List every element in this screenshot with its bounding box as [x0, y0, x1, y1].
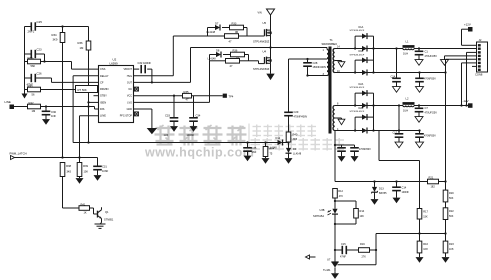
svg-text:R34: R34 [52, 33, 58, 37]
capacitor C17 [393, 131, 404, 148]
svg-text:LL4148: LL4148 [208, 57, 217, 60]
svg-text:470UF/25V: 470UF/25V [425, 111, 438, 114]
svg-text:1K8: 1K8 [423, 248, 428, 251]
wire opto parallel loop [334, 201, 356, 225]
svg-text:R14: R14 [360, 209, 365, 213]
resistor R43 [25, 84, 76, 97]
regulator U7 TL431 [323, 258, 339, 272]
svg-text:GND: GND [127, 108, 133, 111]
wire LVG to gate network 2 [134, 61, 210, 103]
resistor R22 [443, 208, 454, 220]
diode D2A dual rectifier [350, 83, 375, 131]
svg-text:R16: R16 [423, 242, 428, 246]
resistor R19 [359, 242, 377, 258]
svg-text:1NF: 1NF [51, 114, 56, 118]
svg-text:STPS20L45CF: STPS20L45CF [350, 30, 365, 32]
svg-text:PFC-STOP: PFC-STOP [120, 115, 133, 118]
svg-text:R21: R21 [429, 175, 434, 179]
svg-text:D10: D10 [276, 136, 281, 140]
wire +12V pad to pin1 [462, 29, 478, 45]
resistor R35 [183, 90, 192, 101]
capacitor C29 [284, 110, 307, 132]
wire pin5 to divider column [444, 59, 477, 73]
svg-text:C17: C17 [393, 132, 398, 135]
capacitor C31 [93, 165, 108, 181]
wire HVG to gate network 1 [134, 36, 174, 76]
wire R34 down vertical [62, 43, 64, 158]
capacitor C26 [25, 72, 99, 87]
svg-text:10NF: 10NF [102, 169, 109, 173]
resistor R41 [79, 202, 90, 214]
svg-text:470NF/400V: 470NF/400V [294, 116, 308, 119]
capacitor C25 [28, 20, 43, 33]
svg-text:www.hqchip.com: www.hqchip.com [144, 146, 254, 160]
wire LINE pin to R39 [80, 116, 99, 163]
svg-text:56K: 56K [449, 215, 454, 218]
node LINE input pad [5, 100, 15, 109]
svg-text:LINE: LINE [100, 114, 106, 118]
node +12V pad [464, 23, 473, 32]
svg-text:Q1: Q1 [105, 210, 109, 214]
svg-text:J2: J2 [479, 38, 482, 42]
svg-text:U4: U4 [263, 50, 267, 54]
svg-text:10K: 10K [360, 215, 365, 218]
wire LINE row [14, 105, 99, 109]
resistor R39 [76, 163, 89, 184]
resistor R21 [428, 175, 439, 188]
capacitor C7 [415, 104, 438, 122]
node VIN flag [258, 9, 275, 15]
svg-text:D13: D13 [379, 187, 384, 191]
svg-text:R17: R17 [423, 210, 428, 214]
svg-text:LINE: LINE [5, 100, 11, 104]
svg-text:C25: C25 [37, 20, 43, 24]
diode D1A dual rectifier [350, 26, 375, 73]
capacitor C30 [42, 107, 57, 125]
svg-text:1NF: 1NF [252, 150, 257, 154]
svg-text:BZX55: BZX55 [379, 192, 387, 195]
ground Q1 emitter [95, 224, 106, 228]
svg-text:VCC: VCC [127, 95, 132, 98]
diode D9 [285, 143, 302, 164]
node TP4 test point [223, 94, 234, 99]
svg-text:R19: R19 [360, 242, 365, 246]
svg-text:C23: C23 [37, 48, 43, 52]
svg-text:STN851: STN851 [104, 217, 114, 221]
wire R36 down to ISEN bus [87, 50, 89, 143]
wire row A [25, 25, 89, 27]
svg-text:STP14NK50Z: STP14NK50Z [253, 67, 270, 71]
wire bottom rail 1 [335, 71, 446, 73]
svg-text:L6599: L6599 [110, 62, 119, 66]
ground TL431 anode [331, 272, 339, 279]
svg-text:T1: T1 [330, 38, 334, 42]
resistor R37 [25, 56, 72, 68]
svg-text:+12V: +12V [464, 23, 471, 27]
node PWM_LATCH flag [10, 152, 27, 160]
svg-text:RT 56K: RT 56K [78, 88, 87, 92]
wire pin3 [467, 52, 478, 105]
svg-text:SRW2838EC: SRW2838EC [322, 42, 338, 46]
svg-text:R38: R38 [66, 164, 71, 168]
svg-text:STBY: STBY [100, 94, 107, 98]
connector J2 [475, 38, 488, 77]
inductor L2 [403, 97, 415, 113]
transistor U4 low-side MOSFET [253, 50, 272, 71]
svg-text:470NF/50V: 470NF/50V [424, 79, 436, 81]
diode D10 [269, 136, 283, 149]
svg-text:C35: C35 [252, 146, 257, 150]
resistor R14 [354, 209, 365, 219]
capacitor C2A [391, 47, 401, 92]
svg-text:D2A: D2A [359, 83, 364, 86]
svg-text:CF: CF [100, 80, 104, 84]
svg-text:D7: D7 [215, 22, 219, 26]
svg-text:D1A: D1A [359, 26, 364, 29]
svg-text:LL4148: LL4148 [269, 146, 278, 149]
wire aux caps row [335, 144, 355, 146]
resistor R40 [286, 132, 298, 142]
node REF flag [306, 255, 316, 259]
wire secondary sense drop [334, 131, 336, 182]
capacitor C36 [337, 145, 346, 162]
svg-text:470: 470 [339, 195, 344, 198]
svg-text:56K: 56K [449, 197, 454, 200]
svg-text:VIN: VIN [258, 12, 262, 15]
svg-text:1K8: 1K8 [449, 248, 454, 251]
svg-text:TP4: TP4 [229, 94, 234, 98]
ground secondary 1 center tap [338, 61, 345, 68]
ground LS source [266, 63, 274, 80]
svg-text:100NF: 100NF [402, 191, 410, 194]
resistor R36 [78, 27, 91, 51]
svg-text:CSS: CSS [100, 67, 106, 71]
watermark hqchip [144, 124, 344, 160]
svg-text:100NF: 100NF [187, 133, 195, 137]
capacitor C34 [187, 96, 201, 137]
svg-text:R23: R23 [449, 242, 454, 246]
svg-text:D8: D8 [216, 49, 220, 53]
svg-text:R42: R42 [29, 101, 35, 105]
wire to CSS [72, 62, 99, 70]
capacitor C14 [392, 182, 409, 204]
wire opto to TL431 [334, 224, 336, 262]
svg-text:TL431: TL431 [323, 268, 331, 272]
wire pin6 [462, 63, 478, 106]
ground IC GND pin [134, 109, 158, 134]
wire divider tap row B [376, 232, 447, 234]
svg-text:U5: U5 [263, 21, 267, 25]
svg-text:PWM_LATCH: PWM_LATCH [10, 152, 27, 156]
svg-text:1K: 1K [84, 210, 87, 214]
capacitor C32 bootstrap [134, 61, 154, 83]
wire R38 to Q1 [63, 177, 80, 209]
svg-text:STPS20L45CF: STPS20L45CF [350, 54, 365, 56]
diode U3B optocoupler LED [313, 208, 338, 224]
svg-text:3K9: 3K9 [53, 38, 58, 42]
capacitor C1 [415, 47, 438, 65]
svg-text:D9: D9 [293, 147, 297, 151]
wire pin7 stub [472, 65, 477, 67]
wire bottom rail 2 [335, 129, 421, 131]
resistor R38 [60, 163, 71, 177]
resistor R17 [417, 209, 428, 234]
svg-text:15K: 15K [423, 216, 428, 219]
wire C28 to C29 [289, 58, 328, 113]
capacitor C18 [415, 131, 436, 148]
svg-text:D2B: D2B [359, 107, 364, 110]
svg-text:3K6: 3K6 [67, 170, 72, 174]
wire R12 to opto [334, 198, 336, 209]
svg-text:-12V: -12V [463, 99, 469, 103]
svg-text:SFH615A: SFH615A [313, 214, 324, 218]
wire PWM_LATCH row [15, 156, 98, 166]
diode D2B dual rectifier [350, 107, 375, 134]
wire right divider column [445, 73, 447, 234]
svg-text:OUT: OUT [127, 81, 133, 84]
svg-text:R36: R36 [233, 49, 238, 53]
transistor Q1 [90, 207, 114, 224]
ground connector pin4 [441, 56, 478, 65]
resistor R12 [333, 189, 344, 199]
svg-text:R22: R22 [449, 209, 454, 213]
wire rail2 tie [398, 106, 400, 131]
diode D13 zener [371, 182, 388, 205]
resistor R34 [52, 27, 65, 43]
resistor R23 [443, 234, 454, 253]
ground left rail [22, 90, 28, 99]
ground R16 [416, 253, 424, 263]
svg-text:C2A: C2A [391, 76, 396, 79]
svg-text:R40: R40 [293, 132, 298, 136]
svg-text:STP14NK50Z: STP14NK50Z [253, 39, 270, 43]
wire feedback line A [335, 180, 447, 182]
resistor R36B [231, 49, 245, 61]
svg-text:R41: R41 [81, 202, 86, 206]
svg-text:VBOOT: VBOOT [123, 68, 132, 71]
svg-text:R12: R12 [338, 189, 343, 193]
svg-text:182: 182 [431, 184, 436, 188]
diode D1B dual rectifier [350, 50, 375, 75]
svg-text:C7: C7 [425, 106, 429, 110]
svg-text:C33: C33 [165, 114, 170, 118]
wire secondary 1 taps [335, 49, 355, 73]
svg-text:R43: R43 [28, 84, 34, 88]
svg-text:470NF/50V: 470NF/50V [359, 149, 371, 151]
capacitor C28 resonant [303, 59, 326, 76]
transistor U5 high-side MOSFET [253, 21, 272, 43]
resistor R16 [417, 234, 428, 253]
svg-text:R39: R39 [83, 164, 88, 168]
svg-text:NC: NC [128, 88, 132, 91]
svg-text:470UF/25V: 470UF/25V [425, 55, 438, 58]
node -12V pad [463, 99, 473, 108]
svg-text:C28: C28 [313, 61, 318, 65]
svg-text:1UH: 1UH [403, 51, 408, 55]
wire secondary 2 taps [335, 106, 355, 131]
wire gate network 1 loop [173, 28, 264, 37]
svg-text:27K: 27K [362, 255, 367, 258]
wire left rail [24, 27, 26, 90]
resistor R32 [225, 34, 239, 44]
svg-text:10K: 10K [84, 170, 89, 174]
op-amp U2 L6599 controller [99, 58, 134, 123]
diode D8 [208, 49, 222, 61]
svg-text:HVG: HVG [127, 75, 132, 78]
resistor R40 RFMIN box [76, 86, 99, 93]
svg-text:D1B: D1B [359, 50, 364, 53]
svg-text:2NF2: 2NF2 [28, 29, 35, 33]
wire ISEN bus [73, 141, 290, 143]
svg-text:U7: U7 [327, 258, 331, 262]
resistor R31 [226, 59, 240, 68]
svg-text:1UH: 1UH [403, 108, 408, 112]
svg-text:C31: C31 [102, 165, 107, 169]
svg-text:C14: C14 [402, 186, 407, 190]
svg-text:STPS20L45CF: STPS20L45CF [350, 87, 365, 89]
ground secondary 2 center tap [338, 118, 345, 125]
pin NC no-connect mark [135, 87, 139, 91]
wire VCC row [134, 95, 223, 97]
wire divider feed [379, 131, 420, 209]
svg-text:ISEN: ISEN [100, 100, 106, 104]
resistor R42 [28, 101, 41, 113]
capacitor C23 [25, 48, 45, 62]
capacitor C33 [164, 96, 179, 137]
svg-text:C34: C34 [196, 114, 201, 118]
svg-text:LL4148: LL4148 [207, 30, 216, 34]
svg-text:R33: R33 [232, 22, 237, 26]
resistor R44 [262, 143, 275, 164]
svg-text:CON8: CON8 [475, 73, 483, 77]
wire DELAY to ISEN bus [73, 76, 98, 143]
svg-text:STPS20L45CF: STPS20L45CF [350, 111, 365, 113]
svg-text:56K: 56K [31, 64, 36, 68]
svg-text:150NF/400V: 150NF/400V [313, 66, 327, 69]
svg-text:C15: C15 [341, 242, 346, 246]
capacitor C35 [243, 143, 257, 162]
wire output rail 2 [355, 104, 468, 106]
svg-text:C26: C26 [37, 72, 43, 76]
wire TL431 ref [338, 234, 378, 265]
svg-text:470NF/50V: 470NF/50V [424, 136, 436, 138]
wire half-bridge midpoint bus [191, 36, 328, 59]
resistor R33 [230, 22, 244, 35]
ground R23 [442, 253, 450, 263]
svg-text:RFMIN: RFMIN [100, 87, 108, 91]
wire gate network 2 loop [210, 55, 265, 64]
svg-text:1M: 1M [32, 109, 36, 113]
diode D7 [207, 22, 221, 35]
transformer T1 [322, 38, 341, 133]
svg-text:DELAY: DELAY [100, 74, 109, 78]
wire STBY stub [94, 95, 99, 97]
svg-text:C32 100NF: C32 100NF [138, 61, 152, 65]
wire output rail 1 [335, 48, 477, 50]
capacitor C37 [350, 145, 371, 162]
svg-text:47NF: 47NF [340, 255, 346, 258]
svg-text:R37: R37 [28, 56, 34, 60]
svg-text:LL4148: LL4148 [293, 152, 302, 155]
svg-text:R20: R20 [449, 191, 454, 195]
svg-text:C30: C30 [51, 110, 57, 114]
wire primary return [306, 74, 327, 76]
wire OUT to half-bridge node [134, 48, 191, 83]
svg-text:C1: C1 [425, 50, 429, 54]
wire ISEN stub [89, 101, 99, 103]
svg-text:DIS: DIS [100, 107, 105, 111]
svg-text:R36: R36 [78, 41, 84, 45]
svg-text:3R3: 3R3 [293, 137, 298, 141]
capacitor C15 [335, 242, 359, 258]
resistor R20 [443, 190, 454, 202]
pin PFC-STOP no-connect mark [135, 112, 139, 116]
inductor L1 [403, 40, 415, 56]
svg-text:U3B: U3B [320, 208, 325, 212]
capacitor C2B [415, 73, 436, 93]
svg-text:1UF: 1UF [164, 133, 169, 137]
svg-text:C29: C29 [294, 110, 299, 114]
wire HS drain to input flag [270, 15, 272, 30]
svg-text:LVG: LVG [127, 101, 132, 104]
svg-text:R35: R35 [184, 90, 190, 94]
